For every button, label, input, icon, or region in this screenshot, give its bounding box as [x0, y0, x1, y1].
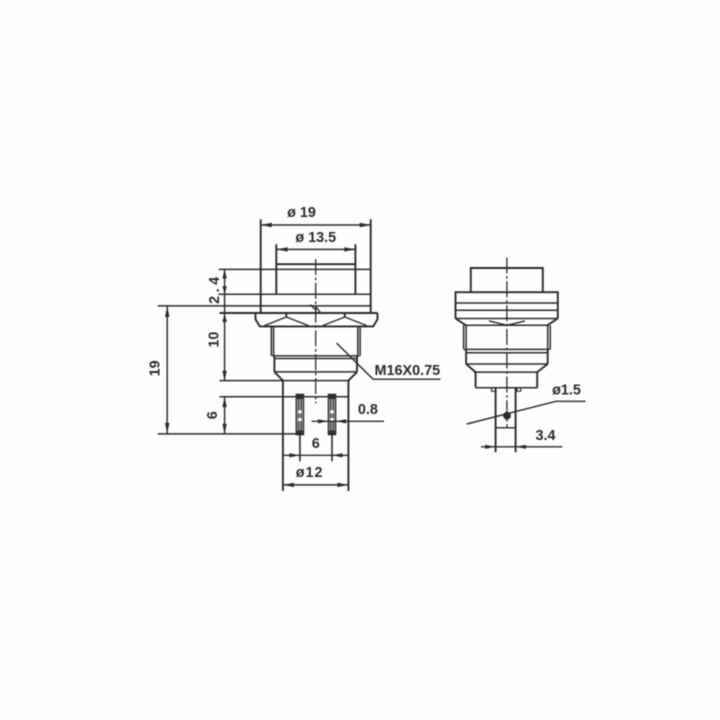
base housing front view	[220, 380, 349, 382]
hex nut front view	[220, 312, 378, 314]
washer bottom line	[158, 305, 371, 307]
dimension 0.8 leader	[312, 419, 384, 423]
svg-text:ø12: ø12	[296, 465, 324, 481]
flange lower edge	[218, 293, 370, 295]
dimension Ø12	[283, 483, 349, 487]
pin shelf line	[220, 396, 349, 398]
svg-text:0.8: 0.8	[358, 402, 378, 418]
svg-text:ø 13.5: ø 13.5	[295, 230, 336, 246]
dimension 3.4	[481, 445, 562, 449]
pin hole	[503, 412, 511, 420]
side view pin tabs	[492, 388, 496, 392]
svg-text:ø 19: ø 19	[287, 205, 316, 221]
terminal pin right	[328, 394, 335, 461]
flange top edge	[219, 268, 371, 270]
threaded bushing front view	[271, 326, 360, 356]
side view nut band	[456, 319, 558, 326]
svg-text:6: 6	[205, 411, 221, 419]
side view centerline	[506, 258, 508, 429]
leader Ø1.5	[467, 401, 586, 424]
dimension 6 (pin spacing)	[283, 453, 348, 457]
taper to base	[274, 372, 357, 381]
thread run-out slashes	[310, 305, 321, 313]
svg-text:6: 6	[312, 436, 320, 452]
side view pin column	[496, 388, 516, 452]
svg-text:M16X0.75: M16X0.75	[375, 363, 441, 379]
left dimension column 2.4 / 10 / 6	[222, 269, 226, 434]
side view flange	[456, 292, 558, 318]
dimension Ø13.5	[277, 247, 356, 251]
front view centerline	[315, 259, 317, 404]
front view flange body	[261, 219, 371, 313]
leader M16X0.75	[337, 343, 441, 379]
svg-text:19: 19	[148, 360, 164, 376]
terminal pin left	[296, 394, 303, 461]
svg-text:ø1.5: ø1.5	[552, 383, 581, 399]
side view button cap	[471, 268, 543, 292]
side view base	[474, 371, 538, 373]
svg-text:3.4: 3.4	[535, 428, 555, 444]
left dimension column 19	[158, 306, 300, 434]
front view button cap	[276, 244, 355, 294]
dimension Ø19	[261, 223, 371, 227]
svg-text:10: 10	[207, 332, 223, 348]
svg-text:2.4: 2.4	[207, 273, 223, 304]
side view threaded bushing	[464, 325, 551, 349]
